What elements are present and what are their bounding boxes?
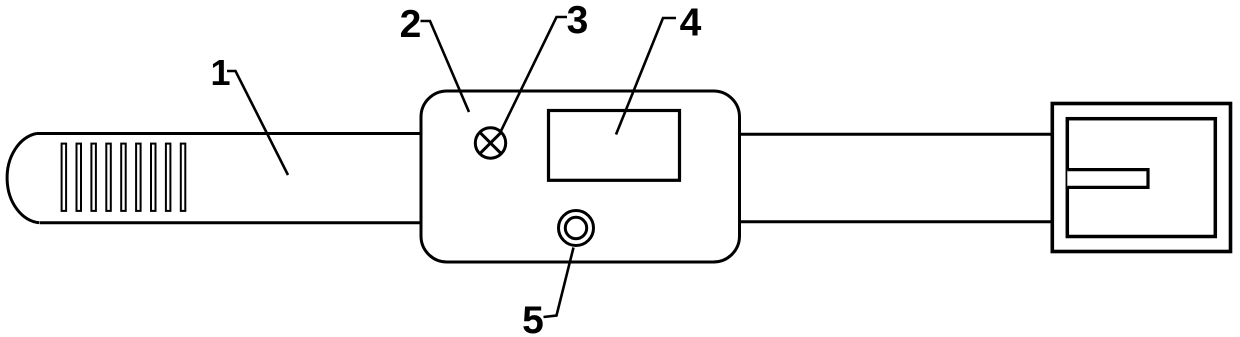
buckle inner frame bbox=[1067, 119, 1215, 237]
svg-text:1: 1 bbox=[210, 52, 230, 93]
svg-text:2: 2 bbox=[400, 3, 422, 46]
leader line for label 3 bbox=[500, 17, 567, 133]
strap ribs (9 vertical slots) bbox=[62, 144, 186, 211]
button 5 (double circle) bbox=[559, 211, 594, 246]
indicator 3 (circle with X) bbox=[475, 128, 505, 158]
main body 2 (rounded rectangle) bbox=[421, 91, 740, 262]
display window 4 bbox=[549, 111, 680, 181]
wire: left strap top edge bbox=[37, 132, 426, 135]
svg-text:3: 3 bbox=[567, 0, 589, 42]
buckle outer frame bbox=[1052, 104, 1230, 252]
strap rounded end cap bbox=[7, 134, 39, 223]
buckle slot bbox=[1067, 170, 1148, 188]
leader line for label 1 bbox=[227, 71, 288, 175]
leader line for label 2 bbox=[421, 21, 470, 112]
wire: right strap bottom edge bbox=[736, 220, 1053, 223]
svg-text:5: 5 bbox=[522, 299, 544, 337]
wire: left strap bottom edge bbox=[40, 221, 425, 224]
leader line for label 5 bbox=[544, 248, 574, 318]
svg-text:4: 4 bbox=[680, 2, 702, 45]
leader line for label 4 bbox=[616, 18, 676, 135]
wire: right strap top edge bbox=[736, 133, 1053, 136]
